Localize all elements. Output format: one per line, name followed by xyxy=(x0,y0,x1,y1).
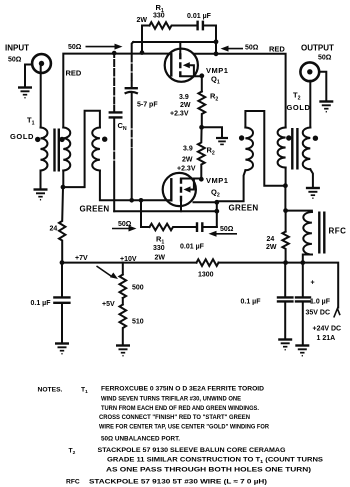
wire R1 left lead drop to gate line xyxy=(141,26,143,54)
resistor R1 (top feedback 330) xyxy=(142,22,197,29)
svg-text:50Ω: 50Ω xyxy=(68,44,82,51)
wire T2 gold bottom to ground xyxy=(310,169,313,187)
T2 winding red (middle) xyxy=(278,128,286,168)
wire T2 red bottom to center tap xyxy=(285,168,287,186)
svg-text:+: + xyxy=(311,280,315,287)
svg-text:FERROXCUBE 0 375IN O D 3E2A: FERROXCUBE 0 375IN O D 3E2A FERRITE TORO… xyxy=(101,386,264,393)
wire T1 red bottom to center tap xyxy=(62,171,64,188)
ground T1 gold xyxy=(34,190,48,200)
wire Q1 source to R2 xyxy=(201,76,203,92)
svg-text:+5V: +5V xyxy=(102,301,115,308)
wire input shield to ground xyxy=(25,65,32,87)
resistor 510 xyxy=(120,298,127,345)
transistor Q2 VMP1 xyxy=(163,173,202,211)
svg-text:35V DC: 35V DC xyxy=(306,310,331,317)
svg-text:+24V DC: +24V DC xyxy=(313,326,342,333)
svg-text:0.01 µF: 0.01 µF xyxy=(187,13,212,20)
resistor R1 (bottom feedback 330) xyxy=(141,224,196,231)
T2 core xyxy=(292,128,297,170)
svg-text:50Ω UNBALANCED PORT.: 50Ω UNBALANCED PORT. xyxy=(101,436,180,443)
svg-text:STACKPOLE 57 9130 5T #30 WIRE: STACKPOLE 57 9130 5T #30 WIRE (L ≈ 7 0 µ… xyxy=(89,479,267,486)
svg-text:RFC: RFC xyxy=(329,227,347,236)
svg-text:3.9: 3.9 xyxy=(179,94,189,101)
wire red drain line to T2 xyxy=(216,54,286,128)
junction dot rail left xyxy=(60,260,65,265)
T1 red polarity dot xyxy=(59,137,64,142)
pot wiper arrow xyxy=(97,266,119,279)
T1 winding RED (middle) xyxy=(63,128,70,171)
RFC core xyxy=(319,212,324,254)
wire T1 green top crossconnect to center tap xyxy=(63,111,100,187)
wire R1prime drop xyxy=(140,200,142,227)
wire T2 gold top to output connector xyxy=(309,81,311,128)
wire drain line A of Q1 xyxy=(133,41,216,43)
svg-text:50Ω: 50Ω xyxy=(8,57,22,64)
svg-text:GREEN: GREEN xyxy=(80,205,110,214)
ground T2 gold xyxy=(306,188,320,198)
arrow annotation bottom right pointing left xyxy=(209,231,238,237)
svg-text:OUTPUT: OUTPUT xyxy=(301,44,334,53)
svg-text:50Ω: 50Ω xyxy=(245,45,259,52)
junction dot rail RFC xyxy=(300,260,305,265)
inductor RFC xyxy=(286,211,312,263)
T1 winding GOLD (left) xyxy=(41,128,48,171)
svg-text:NOTES.: NOTES. xyxy=(38,387,63,394)
T1 winding GREEN (right) xyxy=(92,128,100,171)
capacitor CN neutralization (dashed column) xyxy=(109,53,123,211)
T2 gold polarity dot xyxy=(313,136,318,141)
svg-text:GOLD: GOLD xyxy=(287,103,311,112)
svg-text:2W: 2W xyxy=(137,17,148,24)
arrow annotation bottom left pointing right xyxy=(112,226,137,232)
svg-text:INPUT: INPUT xyxy=(5,44,29,53)
capacitor 0.1 uF left xyxy=(53,263,70,343)
ground between R2s xyxy=(216,138,228,144)
junction dot trimmer-green gate xyxy=(129,198,134,203)
resistor 24 ohm right xyxy=(282,211,288,263)
arrow annotation pointing left xyxy=(221,46,244,52)
resistor 24 ohm left bias feed xyxy=(59,187,65,263)
svg-text:50Ω: 50Ω xyxy=(318,55,332,62)
svg-text:0.1 µF: 0.1 µF xyxy=(241,299,262,306)
svg-text:2W: 2W xyxy=(182,157,193,164)
svg-text:1300: 1300 xyxy=(198,272,214,279)
svg-text:GREEN: GREEN xyxy=(229,204,259,213)
T2 green polarity dot xyxy=(239,135,244,140)
wire input center pin to T1 gold winding xyxy=(40,66,42,127)
svg-text:WIRE FOR CENTER TAP, USE CENTE: WIRE FOR CENTER TAP, USE CENTER "GOLD" W… xyxy=(99,424,269,431)
junction dot T1 center tap xyxy=(61,185,66,190)
wire center tap down to feed node xyxy=(284,186,286,211)
svg-text:510: 510 xyxy=(132,319,144,326)
T2 winding green (left) xyxy=(245,128,253,171)
svg-text:AS ONE PASS THROUGH BOTH HOLES: AS ONE PASS THROUGH BOTH HOLES ONE TURN) xyxy=(106,467,311,474)
junction dot rail 24R xyxy=(283,260,288,265)
ground under 510 xyxy=(116,346,130,356)
arrow annotation pointing right at gate line xyxy=(86,44,123,50)
junction dot T2 center tap xyxy=(283,183,288,188)
junction dot R1prime drop-green gate xyxy=(139,198,144,203)
junction dot Q2 source xyxy=(199,177,204,182)
T2 red polarity dot xyxy=(286,135,291,140)
svg-text:2W: 2W xyxy=(266,244,277,251)
junction dot feed node xyxy=(283,208,288,213)
svg-text:2W: 2W xyxy=(155,255,166,262)
svg-text:1 21A: 1 21A xyxy=(317,335,336,342)
capacitor 1.0 uF 35V xyxy=(295,263,311,345)
junction dot lineA-cap xyxy=(214,39,219,44)
resistor R2 (upper 3.9) xyxy=(198,92,205,128)
junction dot stub-green xyxy=(214,200,219,205)
output connector J2 xyxy=(300,62,319,81)
svg-text:CROSS CONNECT "FINISH" RED TO: CROSS CONNECT "FINISH" RED TO "START" GR… xyxy=(99,414,250,421)
wire Q2 drain line A-prime xyxy=(114,210,217,212)
svg-text:3.9: 3.9 xyxy=(183,146,193,153)
potentiometer 500 xyxy=(120,263,127,298)
svg-text:24: 24 xyxy=(267,236,275,243)
wire T1 gold bottom to ground xyxy=(40,171,42,189)
junction dot Q1 source xyxy=(199,73,204,78)
svg-text:RED: RED xyxy=(66,69,82,78)
junction dot red output line xyxy=(214,51,219,56)
wire GREEN gate line of Q2 xyxy=(100,171,171,201)
wire green feedback vertical xyxy=(216,201,218,227)
svg-text:GOLD: GOLD xyxy=(10,132,34,141)
svg-text:STACKPOLE 57 9130 SLEEVE BALUN: STACKPOLE 57 9130 SLEEVE BALUN CORE CERA… xyxy=(98,447,286,454)
capacitor 0.1 uF right xyxy=(277,263,294,339)
junction dot gate-R1 xyxy=(140,50,145,55)
capacitor 0.01 uF (top feedback) xyxy=(198,21,216,31)
bias rail right segment to +24V corner xyxy=(219,263,339,308)
wire feedback right vertical to drain and red line xyxy=(215,26,217,54)
svg-text:+2.3V: +2.3V xyxy=(177,165,196,172)
svg-text:+2.3V: +2.3V xyxy=(170,111,189,118)
capacitor 5-7pF trimmer (dashed column) xyxy=(125,42,138,200)
svg-text:330: 330 xyxy=(153,13,165,20)
svg-text:0.1 µF: 0.1 µF xyxy=(31,300,52,307)
wire output shield to ground xyxy=(320,72,327,101)
svg-text:VMP1: VMP1 xyxy=(206,66,228,75)
wire T2 green bottom to Q2 drain net xyxy=(217,170,246,201)
svg-text:2W: 2W xyxy=(180,102,191,109)
wire Q1 drain stub xyxy=(194,53,216,55)
svg-text:330: 330 xyxy=(153,245,165,252)
ground under 0.1uF right xyxy=(278,340,292,350)
junction dot Aprime-green xyxy=(214,209,219,214)
svg-text:50Ω: 50Ω xyxy=(220,226,234,233)
svg-text:24: 24 xyxy=(50,226,58,233)
junction dot gate-CN xyxy=(112,51,117,56)
wire RED gate line of Q1 xyxy=(63,54,171,128)
T1 green polarity dot xyxy=(102,137,107,142)
resistor 1300 in rail xyxy=(197,259,219,266)
wire R2 midpoint to ground xyxy=(202,127,222,137)
svg-text:TURN FROM EACH END OF RED AND: TURN FROM EACH END OF RED AND GREEN WIND… xyxy=(101,405,259,412)
svg-text:5-7 pF: 5-7 pF xyxy=(137,102,158,109)
bias rail left segment xyxy=(62,262,197,264)
T2 winding gold (right) xyxy=(303,128,311,170)
T1 core xyxy=(55,129,59,172)
svg-text:RED: RED xyxy=(269,45,285,54)
svg-text:500: 500 xyxy=(132,285,144,292)
wire T2 green top to center tap xyxy=(245,111,285,186)
svg-text:WIND SEVEN TURNS TRIFILAR #30,: WIND SEVEN TURNS TRIFILAR #30, UNWIND ON… xyxy=(101,396,241,403)
svg-text:RFC: RFC xyxy=(66,479,80,486)
T1 gold polarity dot xyxy=(35,137,40,142)
svg-text:1.0 µF: 1.0 µF xyxy=(310,299,331,306)
ground input xyxy=(18,88,32,98)
supply entry squiggle xyxy=(334,309,340,318)
ground under 1.0uF xyxy=(295,346,309,356)
capacitor 0.01 uF (bottom feedback) xyxy=(197,222,217,232)
ground under 0.1uF left xyxy=(55,344,69,354)
resistor R2 (lower 3.9) xyxy=(198,127,205,179)
junction dot between R2s xyxy=(199,125,204,130)
transistor Q1 VMP1 xyxy=(165,42,202,82)
wire Q2 drain stub xyxy=(194,201,217,203)
svg-text:VMP1: VMP1 xyxy=(206,176,228,185)
ground output xyxy=(319,102,333,112)
svg-text:0.01 µF: 0.01 µF xyxy=(180,244,205,251)
input connector J1 xyxy=(32,54,51,73)
svg-text:+7V: +7V xyxy=(75,255,88,262)
